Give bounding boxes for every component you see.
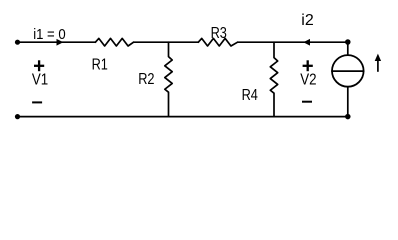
resistor R3 <box>198 38 237 46</box>
wire top-right segment <box>238 41 348 43</box>
svg-text:R3: R3 <box>211 25 227 42</box>
svg-text:V1: V1 <box>32 71 48 88</box>
V2 minus sign <box>302 101 312 103</box>
svg-text:V2: V2 <box>300 71 316 88</box>
V1 plus sign <box>34 60 44 71</box>
V1 minus sign <box>32 101 42 103</box>
wire current source top stub <box>347 42 349 55</box>
arrow current source direction (up) <box>377 61 379 72</box>
svg-text:i1 = 0: i1 = 0 <box>33 26 65 43</box>
current source bar <box>332 70 364 72</box>
svg-text:R1: R1 <box>92 57 108 74</box>
node A (top-left terminal dot) <box>15 40 20 45</box>
arrow i2 (current direction, pointing left) <box>303 39 310 46</box>
V2 plus sign <box>303 60 313 71</box>
svg-text:i2: i2 <box>301 12 314 29</box>
svg-text:R2: R2 <box>138 71 154 88</box>
wire top-left segment <box>18 41 96 43</box>
resistor R4 <box>270 42 277 116</box>
resistor R2 <box>165 42 172 116</box>
arrow i1 (current direction, pointing right) <box>57 39 64 46</box>
node B (top-right junction dot) <box>345 39 351 45</box>
current source I1 circle <box>332 55 364 87</box>
svg-text:R4: R4 <box>242 87 258 104</box>
node C (bottom-left terminal dot) <box>15 114 20 119</box>
wire current source bottom stub <box>347 87 349 117</box>
node D (bottom-right junction dot) <box>345 114 351 120</box>
resistor R1 <box>95 38 133 46</box>
wire top-middle segment <box>134 41 199 43</box>
wire bottom rail <box>18 116 348 118</box>
